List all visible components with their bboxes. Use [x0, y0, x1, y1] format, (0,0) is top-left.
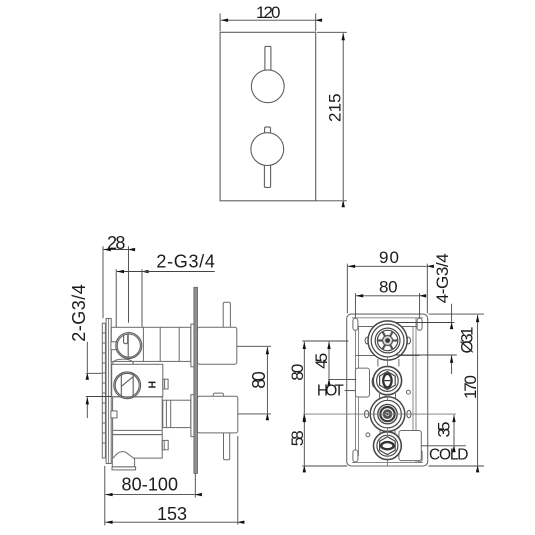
- bottom handle body: [198, 396, 238, 433]
- svg-text:153: 153: [157, 504, 187, 524]
- svg-text:2-G3/4: 2-G3/4: [69, 284, 89, 342]
- knob 2 circle: [251, 133, 284, 166]
- dimension 45: [328, 342, 356, 380]
- knob 1 lever (up): [265, 46, 271, 72]
- svg-text:120: 120: [256, 3, 281, 22]
- dimension 170: [429, 314, 485, 466]
- valve body section A (top cartridge): [111, 327, 191, 361]
- section D right nub: [162, 440, 168, 449]
- knob 2 lever (down): [264, 162, 270, 187]
- svg-text:58: 58: [288, 430, 307, 446]
- COLD inlet boss: [399, 431, 421, 461]
- chrome plate (grey bar): [194, 287, 198, 473]
- section B right tab: [163, 379, 168, 389]
- dimension 58: [302, 415, 347, 466]
- screw near port 2: [406, 390, 410, 394]
- top handle body: [198, 327, 237, 364]
- inner frame lines: [352, 318, 423, 463]
- clip rail strip: [102, 323, 105, 458]
- svg-text:80: 80: [288, 364, 307, 381]
- dimension 80 (handle spacing, right): [237, 346, 271, 414]
- knob 1 circle: [251, 70, 284, 103]
- side port circle 1: [116, 333, 142, 359]
- dimension 80 (slot spacing): [355, 293, 419, 317]
- svg-text:80-100: 80-100: [122, 474, 179, 494]
- escutcheon top handle: [191, 324, 194, 367]
- port 3 (centre mixer): [370, 397, 405, 432]
- port 2 (hot control): [373, 366, 401, 394]
- connector between port2 and port3: [380, 392, 396, 398]
- bottom handle lever: [224, 432, 230, 460]
- valve body section B (thermostat): [112, 364, 163, 397]
- dome bump between sections: [113, 359, 134, 364]
- knob 2 temp button: [265, 127, 271, 135]
- svg-text:45: 45: [312, 353, 331, 369]
- port 4 (cold control): [374, 432, 402, 460]
- section C left tab: [111, 411, 117, 418]
- screw near port 4: [366, 433, 370, 437]
- port 2 left lug: [372, 376, 377, 387]
- svg-text:35: 35: [435, 422, 454, 438]
- spout flange: [112, 467, 136, 470]
- horizontal centreline: [303, 413, 456, 415]
- valve body section D (lower block): [113, 435, 163, 459]
- dimension 2-G3/4 (top ports): [116, 269, 215, 327]
- svg-text:COLD: COLD: [429, 446, 469, 463]
- svg-text:4-G3/4: 4-G3/4: [433, 253, 452, 303]
- dimension 215 (right of top view): [316, 32, 347, 201]
- svg-text:90: 90: [379, 248, 399, 267]
- dimension 153: [105, 436, 237, 525]
- svg-text:2-G3/4: 2-G3/4: [156, 252, 215, 272]
- top handle lever: [223, 302, 230, 328]
- bottom outlet spout: [112, 452, 134, 467]
- connector between port1 and port2: [378, 359, 399, 367]
- mounting body outline: [347, 314, 428, 466]
- dimension 28: [103, 246, 129, 322]
- dimension 2-G3/4 (left ports, rotated): [86, 342, 112, 418]
- section A left tab: [111, 342, 117, 350]
- svg-text:28: 28: [107, 233, 126, 253]
- HOT inlet boss: [355, 368, 369, 397]
- svg-text:Ø31: Ø31: [458, 327, 477, 354]
- port 3 ears: [365, 410, 412, 417]
- dimension 80-100: [105, 466, 196, 525]
- svg-text:H: H: [146, 381, 158, 389]
- bottom handle button: [213, 393, 223, 397]
- vertical axis segments: [387, 356, 389, 465]
- svg-text:215: 215: [325, 93, 344, 122]
- svg-text:80: 80: [249, 371, 269, 389]
- dimension 90: [347, 264, 427, 314]
- dimension 35: [422, 415, 467, 446]
- svg-text:80: 80: [379, 278, 398, 297]
- dimension 80 (left): [302, 341, 348, 413]
- cross band behind top port: [356, 327, 420, 356]
- svg-text:HOT: HOT: [317, 383, 345, 400]
- side port circle 2: [114, 372, 141, 399]
- front plate outline: [220, 32, 316, 201]
- connector between port3 and port4: [380, 430, 395, 434]
- port 1 (top outlet with spoked cap): [368, 321, 407, 360]
- wall plate (edge view): [106, 319, 111, 464]
- escutcheon bottom handle: [191, 395, 194, 437]
- valve body section C: [113, 397, 163, 435]
- dimension 120 (top): [220, 14, 316, 32]
- port 1 ears: [365, 337, 410, 344]
- dimension Ø31: [395, 304, 457, 374]
- mounting slots: [353, 318, 422, 462]
- svg-text:170: 170: [461, 375, 480, 399]
- shaft to bottom handle: [163, 400, 191, 427]
